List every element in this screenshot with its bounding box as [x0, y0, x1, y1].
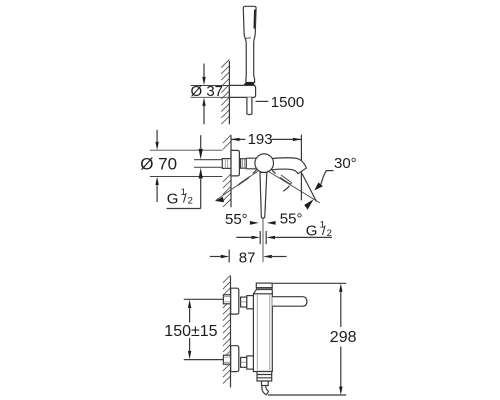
union nut bottom (in wall)	[223, 355, 230, 364]
svg-text:87: 87	[239, 249, 256, 266]
dimension 298 line and arrows	[340, 292, 342, 387]
escutcheon (front view)	[231, 150, 239, 176]
hand shower cone shadow	[244, 82, 254, 86]
Ø70 extension lines	[150, 150, 223, 176]
water stream 30° line	[302, 174, 317, 202]
dimension 298 extension lines	[268, 283, 346, 395]
lever root ticks	[253, 170, 276, 174]
outlet nipple	[262, 381, 269, 386]
spout	[272, 158, 307, 174]
left swung lever outline	[238, 176, 250, 185]
lever handle (hanging)	[260, 173, 267, 219]
wall (top view) hatching	[221, 60, 229, 125]
wall (front view) hatching	[223, 135, 231, 150]
dimension 193 right extension line	[300, 135, 302, 201]
connector nut right of escutcheon	[241, 159, 247, 169]
mixer body (side view)	[253, 294, 272, 372]
left 55° swing line	[216, 171, 258, 200]
centerline below lever	[262, 218, 264, 262]
left swing arrowhead	[215, 197, 224, 203]
wall (front view) face line	[230, 135, 232, 207]
wall (side view) hatching	[223, 275, 231, 383]
outlet G1/2 dimension line and arrows	[236, 236, 331, 238]
Ø70 dimension arrows	[156, 130, 158, 142]
hand shower head shading bar	[253, 10, 256, 29]
shower outlet extension lines	[260, 231, 266, 244]
escutcheon top (side view)	[231, 288, 239, 314]
hex nut top	[241, 297, 247, 307]
dimension Ø37 extension lines	[191, 86, 230, 98]
svg-text:1500: 1500	[271, 94, 304, 111]
inlet pipe	[194, 160, 222, 168]
svg-text:2: 2	[327, 228, 332, 239]
dimension 150±15 line and arrows	[189, 308, 191, 351]
svg-text:/: /	[183, 191, 187, 206]
body boss top	[247, 296, 254, 309]
hand shower head and handle	[243, 6, 256, 82]
svg-text:G: G	[167, 190, 179, 207]
dimension 150±15 extension lines	[184, 299, 224, 359]
svg-text:55°: 55°	[280, 210, 303, 227]
bottom outlet block	[257, 372, 272, 382]
lever flank arrows	[250, 221, 259, 225]
right swung lever outline	[280, 175, 292, 184]
svg-text:150±15: 150±15	[164, 323, 217, 340]
wall (top view) face line	[228, 61, 230, 124]
body boss bottom	[247, 356, 254, 369]
hex nut bottom	[241, 357, 247, 367]
mixer body tube	[246, 158, 272, 169]
right 55° swing line	[267, 171, 320, 203]
G 1/2 left leader with arrows at pipe	[200, 135, 202, 148]
cap ring	[256, 288, 272, 290]
leader line for 1500	[256, 100, 269, 102]
svg-text:30°: 30°	[334, 155, 357, 172]
dimension Ø37 arrows and lines	[203, 64, 205, 78]
svg-text:Ø 37: Ø 37	[191, 83, 224, 100]
dimension 87 (side view)	[228, 250, 230, 263]
escutcheon bottom (side view)	[231, 346, 239, 372]
union nut top (in wall)	[223, 295, 230, 304]
lever (side view)	[272, 297, 307, 307]
svg-text:55°: 55°	[225, 211, 248, 228]
union nut at wall	[222, 159, 231, 169]
hose stub curl	[262, 386, 269, 395]
30° leader curve and arrow	[321, 171, 334, 185]
small arc of 55° right	[283, 186, 289, 192]
body highlight lines	[257, 295, 270, 370]
wall (side view) face line	[230, 276, 232, 387]
neck flare	[253, 290, 272, 294]
svg-text:G: G	[306, 223, 318, 240]
svg-text:193: 193	[248, 131, 273, 148]
lower arc arrowhead near crossing	[304, 199, 313, 210]
shower holder bracket	[229, 85, 255, 97]
svg-text:Ø 70: Ø 70	[140, 155, 177, 174]
svg-text:298: 298	[330, 329, 357, 346]
hose stub below holder	[247, 97, 252, 114]
cartridge dome circle	[255, 154, 274, 173]
svg-text:/: /	[322, 223, 326, 238]
dimension 193 line and arrows	[231, 138, 301, 140]
svg-text:2: 2	[188, 196, 193, 207]
cartridge cap (side view)	[256, 283, 272, 288]
hand shower taper line	[246, 37, 251, 40]
